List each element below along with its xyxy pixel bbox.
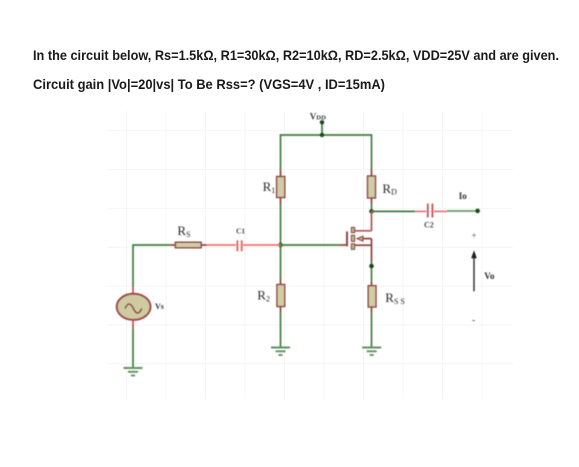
svg-text:C2: C2 [424,220,434,229]
power VDD stub [320,120,324,137]
capacitor C1 [237,240,241,251]
svg-text:Io: Io [459,191,468,201]
wire drain [355,211,372,230]
transistor Q1 (NMOS) [347,227,372,262]
wire left branch top [280,134,282,170]
wire C2 to end dot [434,210,478,212]
wire RD to output node [371,204,373,211]
capacitor C2 [428,204,433,218]
wire R1 to gate node [280,205,282,246]
svg-text:-: - [472,315,475,326]
resistor R2 [277,279,285,313]
svg-text:C1: C1 [236,227,245,236]
wire gate node to gate [281,244,347,246]
wire source to node [371,262,373,281]
wire vs corner to Rs [133,245,176,287]
wire C1 to gate node [243,244,281,246]
wire gate node down [280,245,282,279]
ground under RSS [362,348,381,356]
faint schematic grid [107,111,513,399]
arrow Vo [471,250,477,291]
svg-text:Vs: Vs [155,302,164,311]
svg-text:In the circuit below, Rs=1.5kΩ: In the circuit below, Rs=1.5kΩ, R1=30kΩ,… [33,48,559,63]
svg-text:Circuit gain |Vo|=20|vs| To Be: Circuit gain |Vo|=20|vs| To Be Rss=? (VG… [33,77,385,92]
wire R2 to ground [280,313,282,348]
wire right branch top [371,134,373,170]
wire output node to C2 [372,210,427,212]
ground under R2 [271,348,290,356]
source Vs (AC) [117,287,151,329]
svg-text:Vo: Vo [484,271,495,281]
resistor R1 [277,170,285,205]
node gate junction [278,243,283,248]
wire Vs to ground [132,329,134,369]
node output junction [369,209,374,214]
node source junction [369,264,374,269]
wire Rs to C1 [201,244,236,246]
resistor RS [175,242,201,248]
resistor RSS [368,281,376,313]
ground under Vs [124,368,143,376]
wire top rail [281,134,372,136]
wire RSS to ground [371,313,373,348]
node output terminal [475,209,480,214]
resistor RD [368,170,376,204]
svg-text:+: + [471,231,476,241]
